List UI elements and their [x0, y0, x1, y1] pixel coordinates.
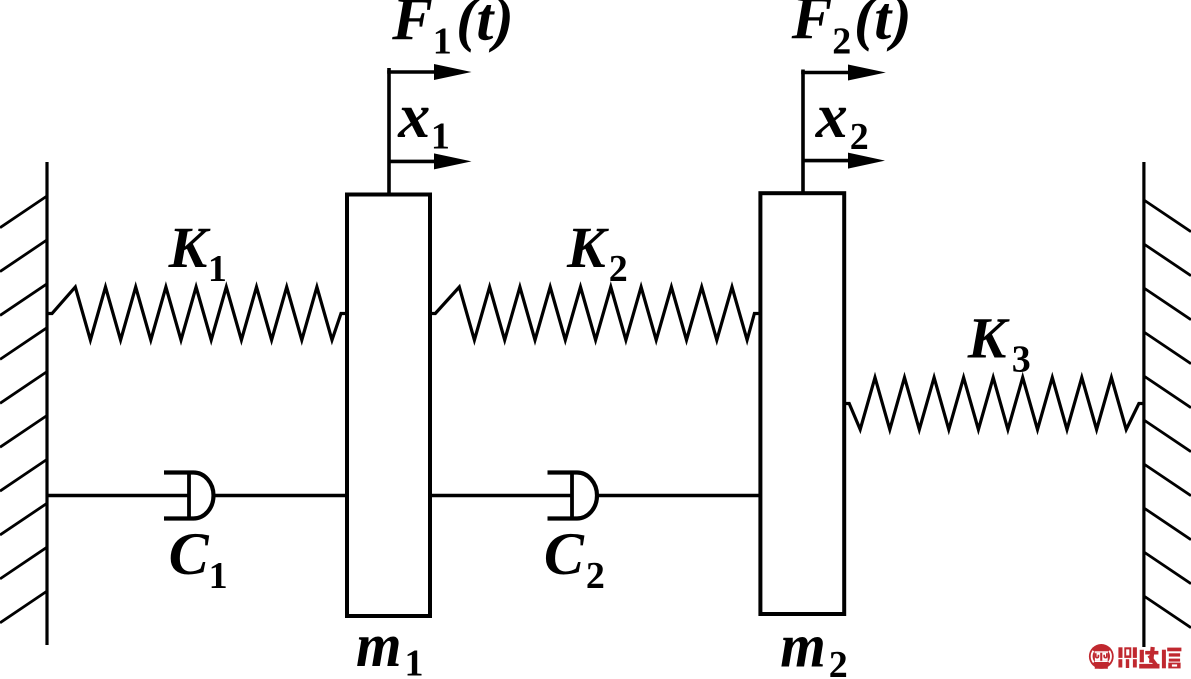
watermark logo [1089, 644, 1114, 669]
mass m1 rectangle [347, 195, 430, 617]
damper C2 left rod [430, 494, 572, 497]
damper C1 cup [164, 473, 214, 519]
spring K2 [430, 287, 760, 340]
svg-text:K2: K2 [566, 215, 628, 290]
svg-text:x2: x2 [815, 80, 869, 158]
m2 reference stem [801, 70, 805, 194]
arrow F2 head [848, 65, 886, 81]
watermark text: 鼎 [1118, 647, 1137, 668]
left wall hatching [0, 196, 47, 623]
svg-text:m1: m1 [356, 612, 424, 679]
svg-text:x1: x1 [397, 80, 450, 158]
right wall [1142, 162, 1145, 647]
watermark text: 信 [1162, 648, 1181, 669]
watermark text: 达 [1139, 647, 1159, 669]
arrow F1 head [434, 64, 472, 80]
svg-text:F2(t): F2(t) [791, 0, 912, 63]
arrow x2 head [848, 153, 885, 169]
svg-text:K3: K3 [967, 306, 1031, 381]
m1 reference stem [387, 68, 391, 195]
arrow x1 head [434, 153, 472, 169]
arrow x1 shaft [389, 160, 440, 164]
damper C2 right rod [596, 494, 760, 497]
damper C1 left rod [47, 494, 189, 497]
damper C2 cup [548, 473, 598, 519]
damper C2 piston [570, 471, 574, 520]
arrow x2 shaft [803, 159, 853, 163]
damper C1 right rod [213, 494, 348, 497]
spring K1 [47, 287, 347, 340]
right wall hatching [1144, 200, 1191, 628]
svg-text:C2: C2 [544, 521, 605, 597]
left wall [45, 162, 48, 645]
spring K3 [844, 378, 1144, 430]
damper C1 piston [187, 471, 191, 520]
arrow F2 shaft [801, 71, 854, 75]
svg-text:F1(t): F1(t) [391, 0, 514, 63]
mass m2 rectangle [760, 193, 844, 614]
svg-text:C1: C1 [169, 521, 228, 597]
arrow F1 shaft [387, 70, 441, 74]
svg-text:K1: K1 [168, 215, 227, 290]
svg-text:m2: m2 [780, 613, 848, 679]
